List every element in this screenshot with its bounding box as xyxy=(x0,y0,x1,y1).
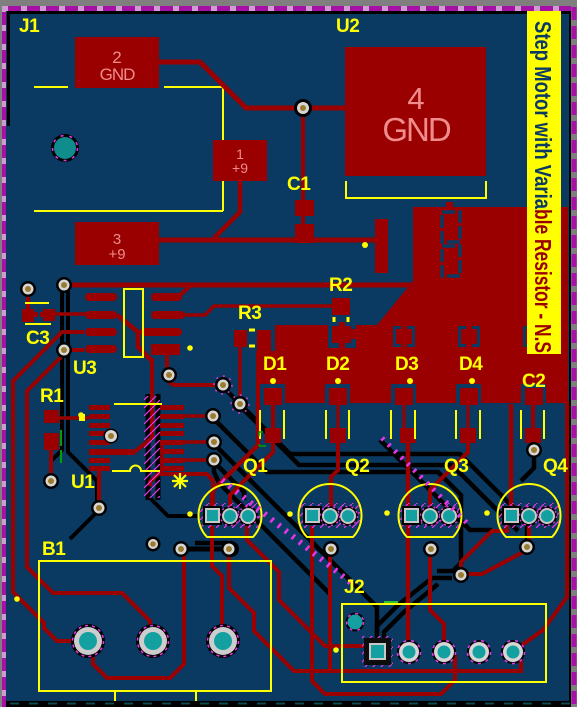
green keepout marks xyxy=(60,430,62,463)
sheet border magenta dashed right xyxy=(571,0,577,707)
svg-text:R1: R1 xyxy=(40,386,64,407)
via inside U1 xyxy=(104,429,119,444)
wire Q1 left pad to B1 pad3 xyxy=(212,526,222,626)
transistor Q1 pads xyxy=(203,506,258,526)
connector J2 pad 1 xyxy=(364,638,391,665)
battery B1 pad 2 xyxy=(136,624,170,658)
wire Q4 middle to via xyxy=(527,526,531,545)
connector J2 pad 3 xyxy=(432,640,456,664)
wire bottom-layer Q3-Q4 diagonal xyxy=(380,440,492,530)
wire bottom-layer long diagonal to J2 xyxy=(214,458,330,594)
via U3 mid xyxy=(56,342,72,358)
capacitor C1 pad bottom xyxy=(295,224,314,243)
svg-text:Q3: Q3 xyxy=(444,456,468,477)
transistor Q4 pads xyxy=(502,506,557,526)
wire pad J1-1 down to bus xyxy=(214,181,240,238)
connector J2 pad 5 xyxy=(501,640,525,664)
svg-text:U2: U2 xyxy=(336,16,359,37)
via below U1 xyxy=(91,500,107,516)
wire D2 to Q2 base xyxy=(331,443,338,507)
wire D4 to Q3 base xyxy=(430,443,468,507)
wire U3 pad to R2 top pad xyxy=(184,306,333,315)
svg-text:R2: R2 xyxy=(329,275,352,296)
svg-text:D1: D1 xyxy=(263,354,287,375)
wire via Q4 to via J2 xyxy=(466,551,525,574)
via bus 1 xyxy=(215,377,231,393)
hatch rings J2 pads xyxy=(398,641,421,664)
IC U2 bracket outline xyxy=(346,181,486,198)
IC U3 pin row left xyxy=(85,293,117,301)
wire pour stub to Q1 emitter xyxy=(212,401,258,507)
via below Q4 xyxy=(519,539,535,555)
via bus 4 xyxy=(206,434,222,450)
diode D1 pad in pour notch xyxy=(260,384,285,405)
svg-text:GND: GND xyxy=(382,111,451,148)
capacitor C2 pad in pour notch xyxy=(521,384,546,405)
capacitor C3 marks xyxy=(25,303,51,324)
wire via to C3 left pad xyxy=(26,294,30,310)
resistor R1 pad upper xyxy=(44,410,59,423)
hatch marks along bottom-layer diagonal Q3-Q4 xyxy=(382,438,470,526)
wire bottom-layer stub to Q1 xyxy=(214,462,244,500)
bottom keepout teal dashes xyxy=(10,703,577,705)
pad cluster D4 top with thermal relief xyxy=(458,326,480,347)
wire R3 right pad to via240 xyxy=(238,347,242,402)
wire pour to Q4 emitter xyxy=(509,404,514,507)
svg-text:ble Resistor - N.S: ble Resistor - N.S xyxy=(530,209,556,353)
wire C1 pads link xyxy=(301,214,305,226)
pad J1-1 xyxy=(213,140,267,181)
svg-text:D3: D3 xyxy=(395,354,418,375)
bottom black band xyxy=(5,701,577,707)
svg-text:Q1: Q1 xyxy=(243,456,268,477)
svg-text:B1: B1 xyxy=(42,539,66,560)
diode D1 silk ticks xyxy=(260,410,284,439)
wire right of band xyxy=(160,445,164,472)
hatched region Q2 pads xyxy=(300,503,360,528)
wire Q2 emitter long with dip under J2 xyxy=(312,526,455,694)
svg-text:GND: GND xyxy=(100,65,136,84)
svg-text:C3: C3 xyxy=(26,328,49,349)
via B1 link left xyxy=(173,541,189,557)
transistor Q3 pads xyxy=(402,506,459,526)
wire bottom-layer B1 via link xyxy=(181,547,231,552)
connector J2 outline xyxy=(342,604,546,682)
wire U1 pins to via column xyxy=(184,414,211,418)
battery B1 outline xyxy=(39,561,271,691)
diode D2 silk ticks xyxy=(326,410,349,439)
J2 mounting hole xyxy=(346,613,365,632)
sheet border magenta dashed left xyxy=(2,6,6,707)
via bus 3 xyxy=(205,408,221,424)
copper pour GND plane xyxy=(256,207,568,403)
via J2 xyxy=(453,567,469,583)
wire trace down hatch band xyxy=(89,358,152,453)
wire R1 lower pad to via xyxy=(49,450,53,481)
hatched region Q1 pads xyxy=(200,503,260,528)
diode D2 pad in pour notch xyxy=(325,384,350,405)
svg-text:C1: C1 xyxy=(287,174,311,195)
capacitor C3 pad right xyxy=(43,309,55,321)
transistor Q1 outline xyxy=(199,484,262,537)
pad J1-3 xyxy=(75,222,159,265)
pad cluster D3 top with thermal relief xyxy=(393,326,415,347)
crystal footprint blue outline upper xyxy=(442,212,460,242)
hatch ring via bus xyxy=(214,376,232,394)
IC U1 outline top xyxy=(114,403,162,405)
via net GND top xyxy=(294,99,312,117)
via left of B1 xyxy=(146,537,161,552)
transistor Q2 pads xyxy=(303,506,358,526)
hatched region Q3 pads xyxy=(399,503,461,528)
wire pad J1-3 to wiper bar xyxy=(159,238,376,243)
IC U1 outline bottom with notch xyxy=(112,466,160,471)
board edge black right xyxy=(569,11,572,701)
pad U2-4 GND xyxy=(345,47,486,176)
hatch rings Q pads circles xyxy=(221,507,240,526)
wire bottom-layer bus B xyxy=(240,406,518,531)
wire via to C1 top pad xyxy=(301,108,305,201)
resistor R3 pad right / D1 anode pad xyxy=(257,330,271,347)
pad J1-2 xyxy=(75,37,159,88)
resistor R1 pad lower xyxy=(44,433,59,450)
via U3 lower xyxy=(161,367,177,383)
wire R1 to U1 pin xyxy=(59,416,89,420)
wire via575 to Q4 left xyxy=(461,525,507,573)
wire net A horizontal xyxy=(64,283,412,288)
wire D3 through Q3 emitter to J2 pin2 xyxy=(406,443,411,640)
wire bottom-layer bus D xyxy=(214,444,377,633)
mounting pad top-left xyxy=(51,134,79,162)
wire bottom-layer pair from via near U3 xyxy=(51,291,62,478)
wire via169 to via223 xyxy=(169,378,221,385)
battery B1 tab marks xyxy=(115,691,196,702)
IC U3 outline xyxy=(124,289,143,357)
diode D3 silk ticks xyxy=(391,410,415,439)
svg-text:U1: U1 xyxy=(71,472,95,493)
wire C3 right pad to U3 xyxy=(55,312,86,316)
IC U3 pin row right xyxy=(151,293,182,301)
hatched J2 pad1 area xyxy=(362,636,393,667)
capacitor C3 pad left xyxy=(22,309,34,322)
battery B1 pad 1 xyxy=(71,624,105,658)
diode pad link wires xyxy=(273,405,533,428)
svg-text:Q2: Q2 xyxy=(345,456,369,477)
pad cluster C2 top with thermal relief xyxy=(523,326,545,347)
wire Q1 left pad loop xyxy=(150,474,213,507)
connector J2 pad 4 xyxy=(467,640,491,664)
via bus 5 xyxy=(206,452,222,468)
via bus 2 xyxy=(232,396,248,412)
board edge black top xyxy=(7,11,569,14)
svg-text:+9: +9 xyxy=(232,160,248,176)
svg-text:Q4: Q4 xyxy=(543,456,568,477)
diode lower pads below pour xyxy=(265,428,281,443)
wire right side long to J2 pad5 xyxy=(515,401,567,650)
board edge black left partial xyxy=(7,11,10,126)
via near C3 xyxy=(20,281,36,297)
wire via B1 to J2 bottom rail xyxy=(229,551,521,671)
IC U1 pin1 mark xyxy=(79,414,85,421)
wire bottom-layer C2 via stub xyxy=(521,452,534,481)
via below Q1 xyxy=(223,541,239,557)
wire Q1 right pad to J2 pad1 xyxy=(247,526,366,646)
potentiometer wiper bar pad xyxy=(375,219,388,273)
silk reference dots xyxy=(14,242,490,653)
connector J2 pad 2 xyxy=(397,640,421,664)
wire bottom-layer via R1 to via U1 xyxy=(70,510,99,539)
banner background xyxy=(527,11,561,354)
svg-text:D4: D4 xyxy=(459,354,483,375)
green corner marks near D1 pad xyxy=(259,432,266,446)
capacitor C2 lower pad xyxy=(525,428,541,443)
battery B1 pad 3 xyxy=(206,624,240,658)
via below R1 xyxy=(43,473,59,489)
diode D4 silk ticks xyxy=(456,410,480,439)
svg-text:U3: U3 xyxy=(73,358,96,379)
svg-text:+9: +9 xyxy=(108,246,125,263)
via below Q2 xyxy=(323,541,339,557)
svg-text:R3: R3 xyxy=(238,303,261,324)
wire bottom-layer hatch band verticals xyxy=(146,394,151,500)
wire U3 pin to B1 pad1 (long left) xyxy=(13,332,84,641)
wire D1 to Q1 base xyxy=(230,405,273,507)
diode D3 pad in pour notch xyxy=(391,384,416,405)
resistor R2 pad top xyxy=(332,298,350,315)
wire Q3 middle to J2 pad3 xyxy=(430,551,444,645)
via below Q3 xyxy=(423,541,439,557)
via B1 link right xyxy=(221,541,237,557)
wire B1 dip loop xyxy=(93,549,184,678)
diode D4 pad in pour notch xyxy=(456,384,481,405)
IC U1 pin row right xyxy=(160,405,184,410)
wire U3 pin to B1 pad2 (long left inner) xyxy=(27,350,150,630)
resistor R3 body marks xyxy=(249,330,255,346)
wire bottom-layer under Q1 xyxy=(195,541,232,546)
connector J1 outline xyxy=(34,87,223,211)
board origin asterisk xyxy=(172,473,188,489)
svg-text:C2: C2 xyxy=(522,371,545,392)
transistor Q4 outline xyxy=(498,484,561,537)
svg-text:J2: J2 xyxy=(344,577,364,598)
wire pad J1-2 to via xyxy=(159,62,345,108)
resistor R2 bottom pad with thermal relief xyxy=(328,322,356,348)
wire U3 pad to via169 xyxy=(165,355,169,373)
hatched region Q4 pads xyxy=(499,503,559,528)
via U3 top xyxy=(56,277,72,293)
wire C2 pad chain xyxy=(531,405,535,448)
svg-text:D2: D2 xyxy=(326,354,349,375)
via C2 xyxy=(526,442,542,458)
hatched keepout band center xyxy=(144,396,160,498)
IC U1 pin row left xyxy=(89,405,110,410)
pour top edge tab xyxy=(446,202,453,208)
wire Q2 middle down xyxy=(328,551,332,669)
sheet border magenta dashed top xyxy=(2,6,577,11)
wire U3 right pin1 diagonal to net A xyxy=(178,286,190,297)
wire U3 internal diagonal xyxy=(117,315,152,361)
transistor Q3 outline xyxy=(399,484,462,537)
resistor R3 pad left xyxy=(234,330,247,347)
capacitor C2 silk ticks xyxy=(521,410,544,439)
wire U1 pin8 to via xyxy=(97,470,101,508)
svg-text:J1: J1 xyxy=(19,16,40,37)
wire bottom-layer bus C xyxy=(213,418,461,571)
wire bottom-layer J2 pin1 to via xyxy=(377,578,452,640)
hatch marks along bottom-layer diagonal Q1-Q2 xyxy=(222,480,355,586)
svg-text:Step Motor with Varia: Step Motor with Varia xyxy=(530,21,556,209)
crystal footprint blue outline lower xyxy=(442,246,460,276)
transistor Q2 outline xyxy=(299,484,362,537)
capacitor C1 pad top xyxy=(295,200,314,216)
wire bottom-layer bus A xyxy=(223,387,527,542)
resistor R2 body marks xyxy=(334,317,348,322)
